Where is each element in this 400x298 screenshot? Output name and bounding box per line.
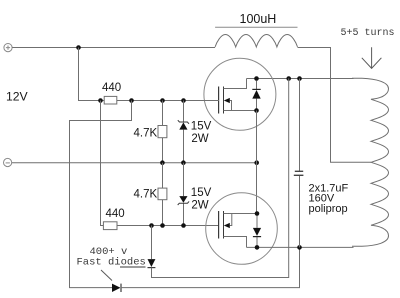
svg-text:poliprop: poliprop [309,203,348,215]
capacitor C1 [294,79,304,248]
node source2 [255,211,260,216]
node capacitor bottom [297,245,302,250]
node source1 [254,108,259,113]
wire feedback gate2 loop [151,226,153,260]
Q2 drain lead [224,237,247,248]
arrow to winding [362,47,382,68]
fast diode D1 [112,247,300,292]
Q1 body diode [252,81,260,111]
Q2 gate bar [218,211,220,239]
fast diode D2 [148,78,289,277]
svg-text:5+5 turns: 5+5 turns [341,28,395,39]
Q2 body arrow [230,214,232,226]
wire drain1 row [247,78,354,80]
Q1 body arrow [230,101,232,111]
Q2 channel bar [223,211,225,239]
svg-text:440: 440 [102,82,121,94]
node gate2 a [149,223,154,228]
node gate1 c [160,98,165,103]
node gate1 b [129,98,134,103]
resistor R1 440 [104,96,117,104]
MOSFET Q1 [204,58,276,130]
Q2 source lead [224,213,258,215]
resistor R4 4.7K lower [158,163,167,226]
wire ground rail [12,162,257,164]
node gate1 a [98,98,103,103]
underline for diodes [120,266,146,268]
svg-text:15V: 15V [191,187,212,199]
zener D4 15V 2W lower [178,163,189,226]
node ground sources [254,160,259,165]
svg-text:2W: 2W [191,200,208,212]
leader line to D1 [101,270,112,281]
wire drain2 row [247,246,354,248]
wire feedback gate1 loop [70,101,132,288]
svg-text:100uH: 100uH [240,12,277,26]
svg-text:12V: 12V [6,90,29,104]
node drain2 [255,245,260,250]
Q2 body diode [253,216,261,248]
terminal J1 positive input [4,44,12,52]
Q1 gate bar [218,87,220,114]
wire gate2 row [117,225,219,227]
node ground R [160,160,165,165]
inductor L1 100uH [215,35,297,47]
Q1 drain lead [224,79,247,89]
zener D3 15V 2W upper [178,101,189,163]
wire L1 to transformer center tap [298,48,372,163]
wire gate1 row [101,100,220,102]
label line for L1 [215,26,297,28]
node gate2 c [181,223,186,228]
node gate1 d [181,98,186,103]
MOSFET Q2 [206,193,278,265]
wire +12V drop to R2 [101,101,104,226]
svg-text:4.7K: 4.7K [134,128,158,140]
Q1 source lead [224,110,257,112]
terminal J2 negative input [4,158,12,166]
transformer T1 primary winding [352,78,389,246]
node capacitor top [297,76,302,81]
node ground Z [181,160,186,165]
node feedback D2 column top [286,76,291,81]
wire sources column [256,111,258,214]
svg-text:4.7K: 4.7K [134,189,158,201]
wire +12V rail top [12,47,215,49]
svg-text:15V: 15V [191,121,212,133]
svg-text:2W: 2W [191,133,208,145]
resistor R2 440 lower [103,222,117,230]
svg-text:440: 440 [106,208,125,220]
wire +12V drop to gate1 row [79,48,101,101]
node drain1 [254,76,259,81]
node gate2 b [160,223,165,228]
node +12V tap [76,45,81,50]
Q1 channel bar [223,87,225,114]
resistor R3 4.7K upper [158,101,167,163]
